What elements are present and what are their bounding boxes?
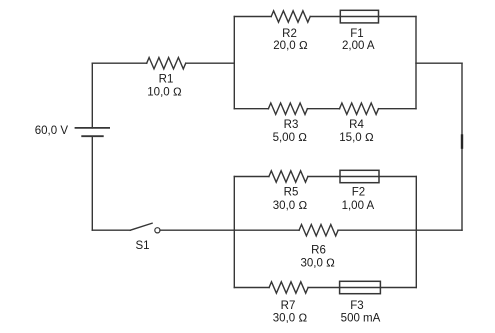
svg-text:S1: S1 [135, 240, 149, 252]
svg-text:15,0 Ω: 15,0 Ω [339, 132, 374, 144]
fuse F3 [340, 281, 381, 293]
resistor R2 [271, 11, 310, 22]
svg-text:R7: R7 [281, 300, 296, 312]
right rail wire down [461, 63, 463, 230]
resistor R4 [340, 103, 379, 114]
battery V1 [76, 63, 110, 230]
svg-text:R1: R1 [159, 74, 174, 86]
wire R4 to top box right edge [379, 108, 417, 110]
svg-text:F2: F2 [352, 186, 365, 198]
fuse F1 [340, 10, 378, 23]
node A: top box left edge [233, 17, 235, 109]
resistor R6 [299, 225, 338, 236]
svg-text:R3: R3 [284, 119, 299, 131]
wire switch to node B [160, 229, 234, 231]
top box right edge [415, 17, 417, 109]
wire top box top edge left [234, 16, 271, 18]
wire R6 to right rail [338, 229, 462, 231]
svg-text:30,0 Ω: 30,0 Ω [273, 200, 308, 212]
resistor R1 [147, 58, 186, 69]
wire top box to right rail [416, 62, 462, 64]
resistor R3 [268, 103, 307, 114]
wire overlap segment on right rail [461, 136, 463, 148]
svg-text:30,0 Ω: 30,0 Ω [273, 312, 308, 324]
wire R2 to F1 [310, 16, 340, 18]
svg-text:10,0 Ω: 10,0 Ω [147, 86, 182, 98]
fuse F2 [340, 170, 379, 182]
resistor R7 [269, 282, 308, 293]
svg-text:F1: F1 [350, 28, 363, 40]
svg-text:F3: F3 [350, 300, 363, 312]
wire R3 to R4 [307, 108, 339, 110]
switch S1 [130, 223, 160, 233]
svg-text:R5: R5 [284, 186, 299, 198]
svg-text:R6: R6 [311, 244, 326, 256]
svg-text:500 mA: 500 mA [341, 312, 381, 324]
svg-text:1,00 A: 1,00 A [342, 200, 375, 212]
wire F3 to bottom box right edge [380, 287, 416, 289]
bottom box right edge [415, 177, 417, 288]
wire battery top to R1 [92, 62, 146, 64]
svg-text:R4: R4 [349, 119, 364, 131]
svg-text:2,00 A: 2,00 A [342, 40, 375, 52]
node B: bottom box left edge [233, 177, 235, 288]
wire F2 to bottom box right edge [379, 176, 416, 178]
svg-text:60,0 V: 60,0 V [35, 125, 69, 137]
wire top box bottom edge left [234, 108, 268, 110]
wire R1 to node A [186, 62, 235, 64]
wire F1 to top box right edge [379, 16, 417, 18]
wire battery bottom to switch [92, 229, 130, 231]
wire bottom box top edge left [234, 176, 269, 178]
svg-text:30,0 Ω: 30,0 Ω [300, 258, 335, 270]
svg-text:R2: R2 [282, 28, 297, 40]
wire bottom box bottom edge left [234, 287, 269, 289]
wire R5 to F2 [308, 176, 340, 178]
wire R7 to F3 [308, 287, 340, 289]
wire node B to R6 [234, 229, 299, 231]
resistor R5 [269, 171, 308, 182]
svg-text:5,00 Ω: 5,00 Ω [273, 132, 308, 144]
svg-text:20,0 Ω: 20,0 Ω [273, 40, 308, 52]
